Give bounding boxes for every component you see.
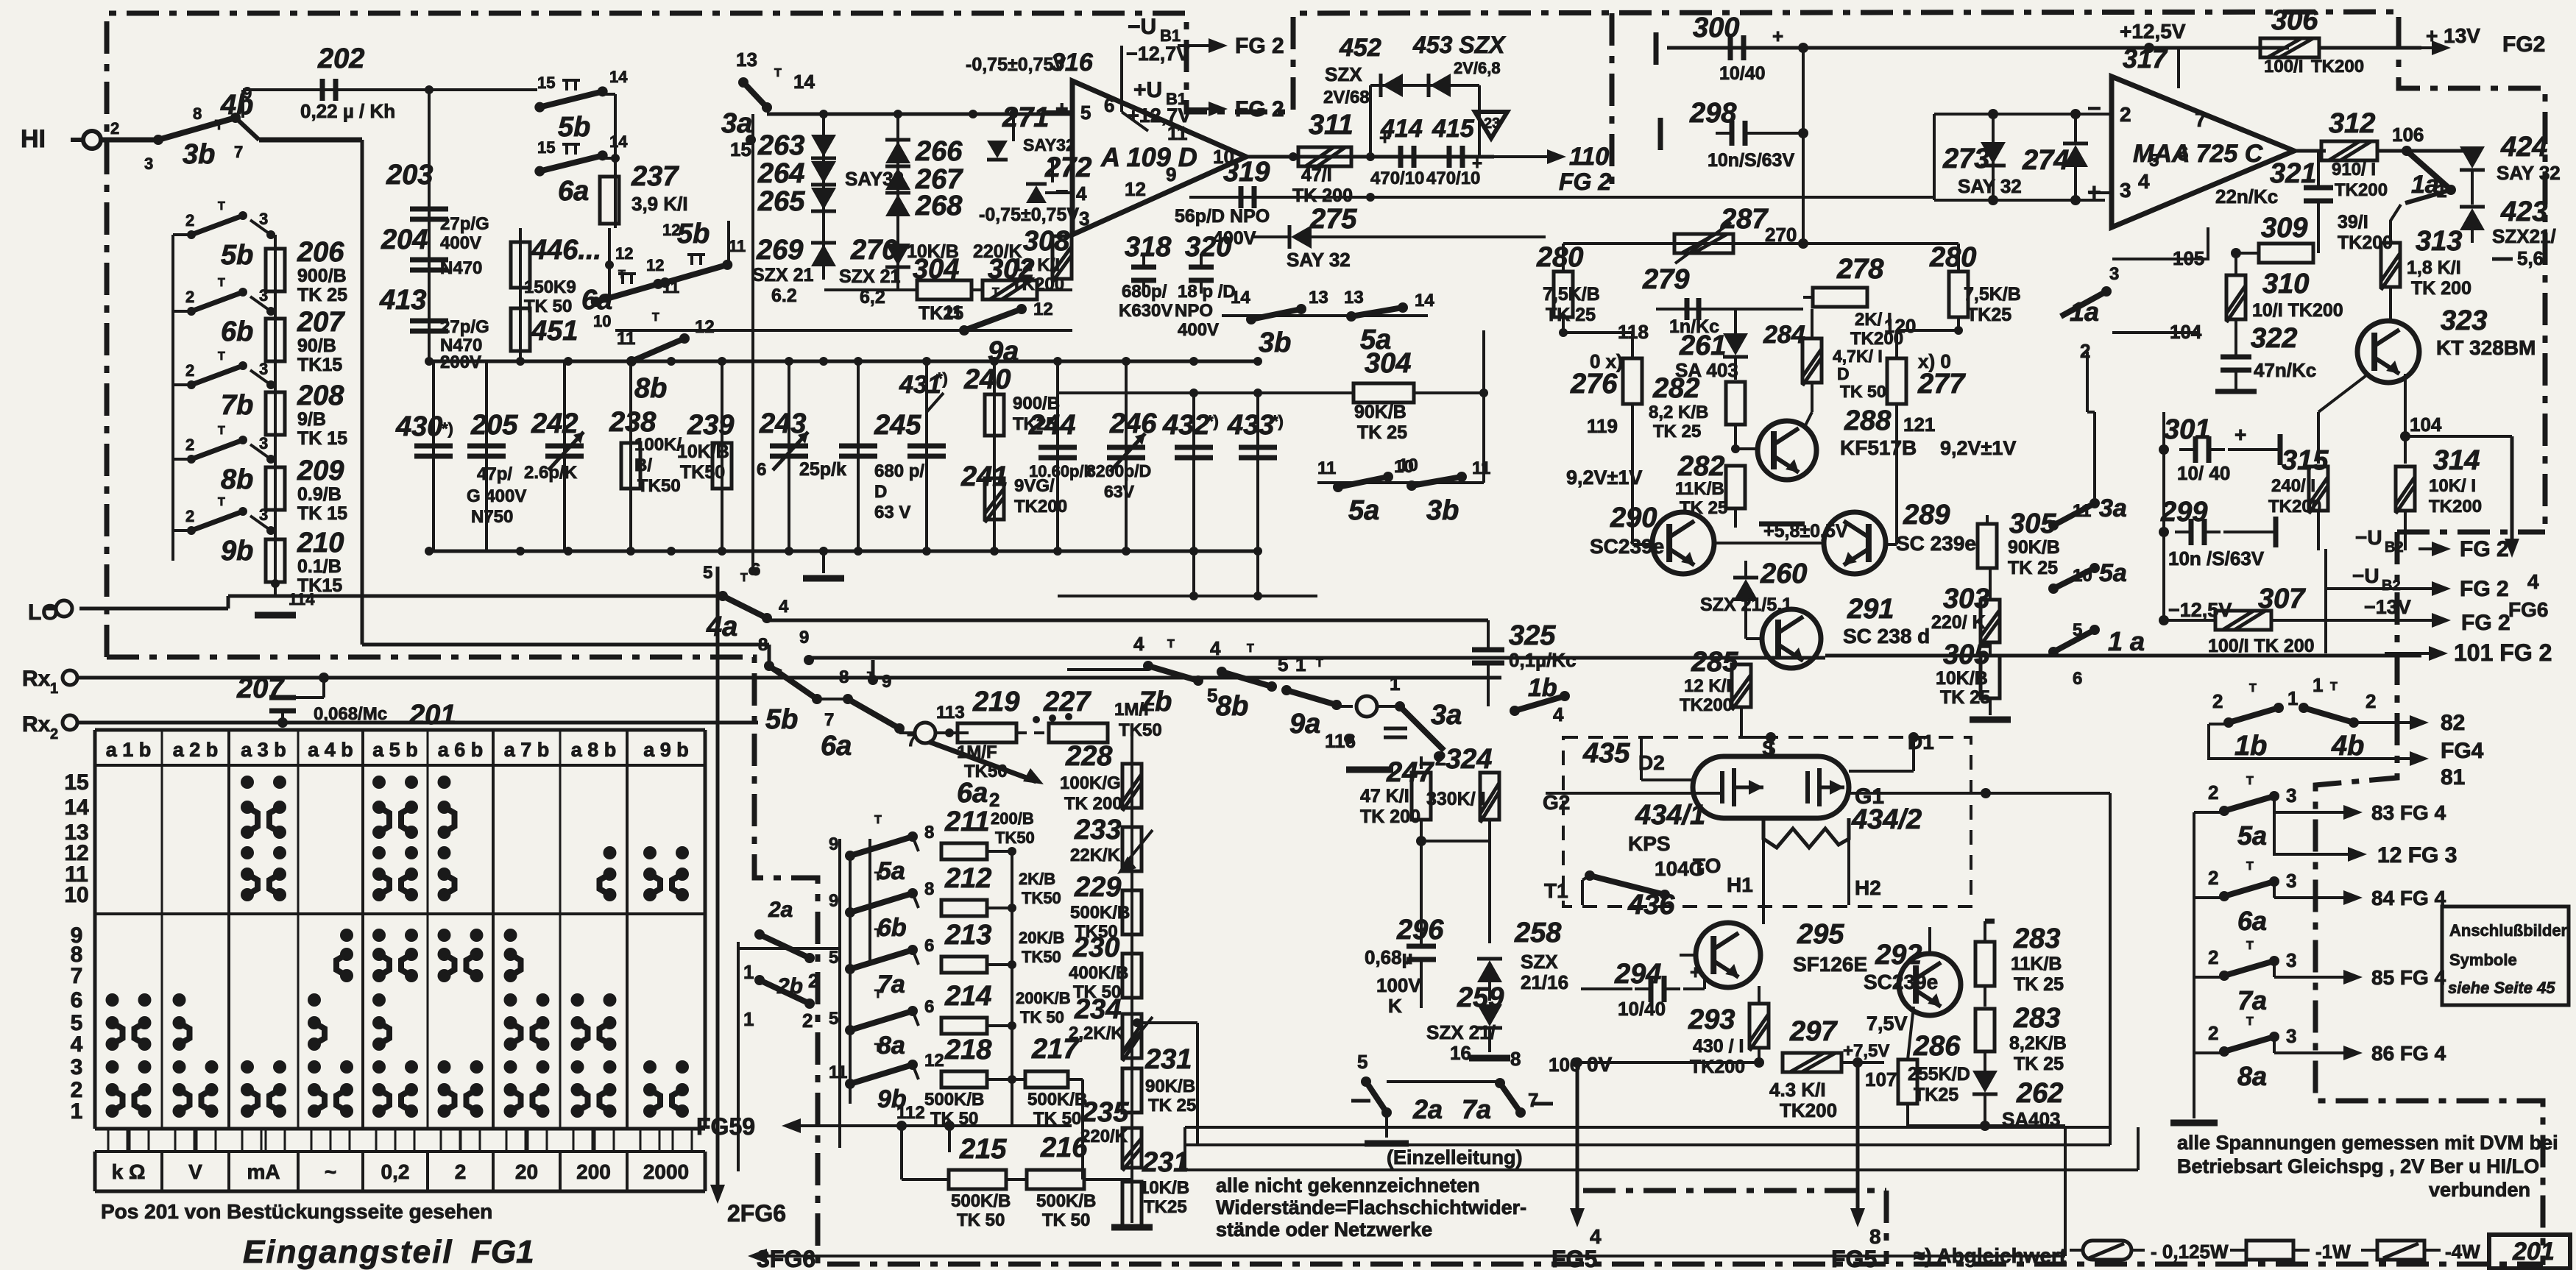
svg-text:5: 5: [829, 948, 838, 968]
svg-text:0,22 µ / Kh: 0,22 µ / Kh: [300, 100, 395, 122]
svg-text:SZX 21: SZX 21: [839, 266, 900, 287]
svg-text:8,2K/B: 8,2K/B: [2009, 1033, 2067, 1054]
svg-text:T: T: [1316, 657, 1323, 670]
svg-text:247: 247: [1386, 757, 1434, 788]
svg-text:*): *): [442, 419, 453, 438]
svg-text:10/I TK200: 10/I TK200: [2252, 300, 2343, 321]
svg-text:1: 1: [2436, 180, 2446, 202]
svg-text:KPS: KPS: [1628, 832, 1671, 855]
svg-text:−U: −U: [2352, 564, 2379, 587]
svg-text:FG2: FG2: [2502, 32, 2545, 57]
svg-text:TK200: TK200: [1850, 329, 1903, 349]
svg-text:−U: −U: [2355, 526, 2382, 549]
svg-text:14: 14: [609, 132, 628, 151]
svg-text:TK 25: TK 25: [1940, 687, 1990, 708]
svg-text:201: 201: [2512, 1238, 2555, 1266]
svg-text:14: 14: [1231, 288, 1250, 308]
svg-text:2: 2: [185, 211, 194, 230]
svg-text:292: 292: [1875, 940, 1922, 971]
svg-text:4: 4: [2138, 170, 2150, 193]
svg-text:T: T: [2246, 860, 2254, 873]
svg-text:260: 260: [1760, 558, 1807, 589]
svg-text:433: 433: [1227, 410, 1274, 441]
svg-text:8: 8: [1510, 1048, 1521, 1070]
svg-text:6: 6: [924, 936, 934, 956]
svg-text:213: 213: [944, 920, 991, 951]
svg-text:0,2: 0,2: [381, 1160, 410, 1183]
svg-text:291: 291: [1847, 594, 1894, 625]
svg-text:mA: mA: [247, 1160, 280, 1183]
svg-text:FG 2: FG 2: [1235, 97, 1284, 121]
svg-text:T: T: [874, 1042, 882, 1054]
svg-text:LO: LO: [28, 600, 59, 625]
svg-text:6: 6: [924, 997, 934, 1017]
svg-text:−13V: −13V: [2364, 596, 2411, 618]
svg-text:304: 304: [1365, 348, 1411, 379]
svg-text:309: 309: [2261, 213, 2307, 244]
svg-text:SF126E: SF126E: [1793, 953, 1867, 976]
svg-text:10K/B: 10K/B: [1936, 668, 1988, 689]
svg-text:12 K/I: 12 K/I: [1684, 676, 1731, 696]
svg-text:243: 243: [759, 408, 806, 439]
svg-text:B2: B2: [2382, 578, 2401, 594]
svg-text:8b: 8b: [221, 464, 253, 495]
svg-text:47p/: 47p/: [477, 464, 512, 484]
svg-text:90K/B: 90K/B: [1354, 402, 1406, 422]
svg-text:5b: 5b: [765, 704, 798, 735]
svg-text:4a: 4a: [706, 611, 737, 642]
svg-text:8: 8: [758, 635, 768, 655]
svg-text:307: 307: [2258, 583, 2306, 614]
svg-text:5: 5: [1357, 1051, 1367, 1073]
svg-text:TO: TO: [1693, 854, 1721, 877]
svg-text:TK 50: TK 50: [1020, 1008, 1064, 1026]
svg-text:452: 452: [1339, 34, 1381, 62]
svg-text:288: 288: [1844, 405, 1892, 436]
svg-text:T: T: [1247, 642, 1254, 655]
svg-text:295: 295: [1797, 919, 1844, 950]
svg-text:TK200: TK200: [1680, 695, 1733, 715]
svg-text:1: 1: [50, 681, 58, 697]
svg-text:+ 13V: + 13V: [2426, 24, 2480, 47]
svg-text:8200p/D: 8200p/D: [1086, 461, 1151, 480]
svg-text:2.6p/K: 2.6p/K: [524, 463, 578, 483]
svg-text:2K/B: 2K/B: [1019, 870, 1055, 888]
svg-text:235: 235: [1081, 1097, 1129, 1128]
svg-text:263: 263: [757, 130, 804, 161]
svg-text:TK200: TK200: [2311, 57, 2364, 77]
svg-text:209: 209: [297, 455, 344, 486]
svg-text:11: 11: [1472, 458, 1490, 478]
svg-text:282: 282: [1652, 373, 1699, 404]
svg-text:220/ K: 220/ K: [1931, 612, 1986, 633]
svg-text:7: 7: [71, 964, 83, 988]
svg-text:324: 324: [1446, 744, 1492, 775]
svg-text:2: 2: [110, 119, 119, 138]
svg-text:TK 15: TK 15: [297, 428, 347, 449]
svg-text:K630V: K630V: [1119, 301, 1172, 321]
svg-text:5: 5: [1278, 653, 1288, 675]
svg-text:296: 296: [1396, 915, 1444, 946]
svg-text:a 7 b: a 7 b: [504, 739, 550, 761]
svg-text:TK200: TK200: [1011, 274, 1064, 294]
svg-text:1: 1: [2287, 687, 2298, 709]
svg-text:9,2V±1V: 9,2V±1V: [1566, 467, 1642, 489]
svg-text:2: 2: [185, 436, 194, 454]
svg-text:500K/B: 500K/B: [951, 1191, 1011, 1211]
svg-text:5a: 5a: [2099, 559, 2127, 587]
svg-text:300: 300: [1693, 13, 1739, 43]
svg-text:TK25: TK25: [1914, 1085, 1958, 1105]
svg-text:3: 3: [2286, 870, 2296, 892]
svg-text:279: 279: [1642, 264, 1689, 295]
svg-text:TK25: TK25: [1967, 305, 2011, 325]
svg-text:20: 20: [515, 1160, 538, 1183]
svg-text:12: 12: [1033, 299, 1053, 319]
svg-text:500K/B: 500K/B: [1036, 1191, 1096, 1211]
svg-text:3b: 3b: [183, 139, 215, 170]
svg-text:268: 268: [915, 191, 963, 221]
svg-text:150K9: 150K9: [524, 277, 576, 297]
svg-text:6a: 6a: [2237, 906, 2267, 936]
svg-text:400K/B: 400K/B: [1069, 963, 1128, 983]
svg-text:284: 284: [1763, 321, 1805, 349]
svg-text:D: D: [1837, 364, 1850, 383]
svg-text:314: 314: [2433, 445, 2480, 476]
svg-text:446...: 446...: [531, 235, 601, 266]
svg-text:T1: T1: [1544, 879, 1568, 902]
svg-text:14: 14: [609, 68, 628, 86]
svg-text:1: 1: [2313, 674, 2323, 696]
svg-text:500K/B: 500K/B: [1027, 1090, 1087, 1110]
svg-text:KF517B: KF517B: [1840, 436, 1917, 459]
svg-text:47 K/I: 47 K/I: [1360, 786, 1409, 806]
svg-text:434/2: 434/2: [1851, 804, 1922, 835]
svg-text:7b: 7b: [221, 390, 253, 421]
svg-text:12 K/I: 12 K/I: [1013, 255, 1060, 275]
svg-text:90/B: 90/B: [297, 336, 336, 356]
svg-text:271: 271: [1002, 102, 1049, 133]
svg-text:1: 1: [71, 1099, 83, 1124]
svg-text:3: 3: [144, 155, 153, 173]
svg-text:3a: 3a: [1431, 700, 1462, 731]
svg-text:FG59: FG59: [696, 1113, 755, 1140]
svg-text:2: 2: [808, 970, 818, 992]
svg-text:434/1: 434/1: [1635, 800, 1705, 831]
svg-text:TK50: TK50: [680, 462, 725, 483]
svg-text:431: 431: [899, 371, 941, 399]
svg-text:2K/ I: 2K/ I: [1855, 310, 1892, 330]
svg-text:100/I: 100/I: [2264, 57, 2303, 77]
svg-text:85 FG 4: 85 FG 4: [2371, 966, 2446, 989]
svg-text:10/40: 10/40: [1719, 63, 1766, 84]
svg-text:313: 313: [2416, 226, 2462, 257]
svg-text:3FG6: 3FG6: [757, 1246, 815, 1270]
svg-text:K: K: [1388, 995, 1402, 1017]
svg-text:2: 2: [2208, 1022, 2218, 1044]
svg-text:228: 228: [1065, 741, 1113, 772]
svg-text:110: 110: [1569, 143, 1609, 171]
svg-text:0,1µ/Kc: 0,1µ/Kc: [1509, 649, 1577, 671]
svg-text:TK 50: TK 50: [957, 1210, 1005, 1230]
svg-text:2V/68: 2V/68: [1323, 88, 1370, 107]
svg-text:100V: 100V: [1376, 974, 1421, 996]
svg-text:246: 246: [1109, 408, 1157, 439]
svg-text:6: 6: [757, 460, 766, 480]
svg-text:-1W: -1W: [2315, 1241, 2351, 1263]
svg-text:6: 6: [71, 988, 83, 1012]
svg-text:262: 262: [2016, 1078, 2063, 1109]
svg-text:1: 1: [743, 1008, 754, 1030]
svg-text:220/K: 220/K: [1080, 1127, 1128, 1146]
svg-text:321: 321: [2270, 158, 2316, 189]
svg-text:- 0,125W: - 0,125W: [2151, 1241, 2229, 1263]
svg-text:500K/B: 500K/B: [924, 1090, 984, 1110]
svg-text:261: 261: [1679, 330, 1726, 361]
svg-text:264: 264: [757, 158, 804, 189]
svg-text:910/ I: 910/ I: [2332, 160, 2376, 180]
svg-text:SAY 32: SAY 32: [2497, 162, 2561, 184]
svg-text:3: 3: [2120, 179, 2131, 202]
svg-text:680p/: 680p/: [1122, 282, 1167, 302]
svg-text:5b: 5b: [677, 219, 710, 249]
svg-text:TK 25: TK 25: [1357, 422, 1407, 443]
svg-text:63 V: 63 V: [874, 503, 910, 522]
svg-text:FG 2: FG 2: [1559, 168, 1611, 195]
svg-text:2: 2: [185, 288, 194, 306]
svg-text:6a: 6a: [957, 778, 988, 809]
svg-text:86 FG 4: 86 FG 4: [2371, 1042, 2446, 1065]
svg-text:205: 205: [470, 410, 518, 441]
svg-text:106: 106: [2392, 124, 2424, 146]
svg-text:233: 233: [1074, 815, 1121, 845]
svg-text:242: 242: [531, 408, 578, 439]
svg-text:8a: 8a: [2237, 1061, 2267, 1091]
svg-text:423: 423: [2500, 196, 2547, 227]
svg-text:2: 2: [2208, 781, 2218, 803]
svg-text:63V: 63V: [1104, 482, 1135, 501]
svg-text:2FG6: 2FG6: [727, 1200, 786, 1227]
svg-text:16: 16: [1450, 1042, 1471, 1064]
svg-text:TK 50: TK 50: [1840, 382, 1886, 401]
svg-text:2: 2: [2208, 946, 2218, 968]
svg-text:298: 298: [1689, 98, 1737, 129]
svg-text:SC239e: SC239e: [1590, 535, 1664, 558]
svg-text:~: ~: [325, 1160, 336, 1183]
svg-text:FG 2: FG 2: [1235, 34, 1284, 58]
svg-text:3: 3: [2109, 264, 2119, 284]
svg-text:2,2K/K: 2,2K/K: [1069, 1024, 1124, 1043]
svg-text:12 FG 3: 12 FG 3: [2377, 843, 2457, 868]
svg-text:27p/G: 27p/G: [440, 317, 489, 337]
svg-text:227: 227: [1043, 687, 1091, 717]
svg-text:TK 25: TK 25: [297, 285, 347, 305]
svg-text:T: T: [874, 988, 882, 1001]
svg-text:4: 4: [1590, 1225, 1602, 1248]
svg-text:T: T: [618, 269, 626, 281]
svg-text:293: 293: [1688, 1004, 1735, 1035]
svg-text:241: 241: [960, 461, 1008, 492]
svg-text:TK 200: TK 200: [1064, 794, 1122, 814]
svg-text:T: T: [740, 572, 748, 584]
svg-text:413: 413: [379, 285, 426, 316]
svg-text:10K/B: 10K/B: [677, 441, 729, 462]
svg-text:T: T: [874, 870, 882, 883]
svg-text:10: 10: [64, 883, 88, 907]
svg-text:4: 4: [1210, 637, 1221, 659]
svg-text:276: 276: [1570, 369, 1618, 400]
svg-text:T: T: [874, 814, 882, 826]
svg-text:FG1: FG1: [471, 1234, 534, 1270]
svg-text:T: T: [992, 286, 999, 299]
svg-text:304: 304: [913, 254, 959, 285]
svg-text:311: 311: [1309, 110, 1354, 141]
svg-text:TK 50: TK 50: [1042, 1210, 1090, 1230]
svg-text:9: 9: [829, 891, 838, 911]
svg-text:245: 245: [874, 410, 921, 441]
svg-text:1: 1: [1390, 673, 1400, 695]
svg-text:414: 414: [1380, 115, 1423, 143]
svg-text:4: 4: [71, 1032, 83, 1057]
svg-text:325: 325: [1509, 620, 1556, 651]
svg-text:282: 282: [1677, 451, 1724, 482]
svg-text:SC 238 d: SC 238 d: [1843, 625, 1930, 648]
svg-text:3b: 3b: [1259, 327, 1291, 358]
svg-text:400V: 400V: [440, 233, 481, 253]
svg-text:6b: 6b: [221, 316, 253, 347]
svg-text:12: 12: [1125, 178, 1146, 200]
svg-text:siehe Seite 45: siehe Seite 45: [2448, 979, 2555, 997]
svg-text:289: 289: [1903, 500, 1950, 531]
svg-text:14: 14: [1415, 291, 1434, 311]
svg-text:TK200: TK200: [2335, 180, 2388, 200]
svg-text:+5,8±0,5V: +5,8±0,5V: [1763, 521, 1848, 542]
svg-text:Rx: Rx: [22, 712, 51, 737]
svg-text:11: 11: [729, 237, 746, 255]
svg-text:1a: 1a: [2411, 171, 2439, 199]
svg-text:10K/B: 10K/B: [1139, 1178, 1189, 1198]
svg-text:SAY 32: SAY 32: [1958, 175, 2022, 197]
svg-text:FG5: FG5: [1551, 1246, 1597, 1270]
svg-text:239: 239: [687, 410, 734, 441]
svg-text:470/10: 470/10: [1370, 168, 1424, 188]
svg-text:451: 451: [531, 316, 578, 347]
svg-text:273: 273: [1942, 143, 1989, 174]
svg-text:*): *): [1207, 412, 1219, 430]
svg-text:204: 204: [381, 224, 428, 255]
svg-text:255K/D: 255K/D: [1908, 1064, 1970, 1085]
svg-text:436: 436: [1627, 890, 1675, 920]
svg-text:9: 9: [882, 672, 891, 692]
svg-text:8,2 K/B: 8,2 K/B: [1649, 402, 1708, 422]
svg-text:25p/k: 25p/k: [799, 459, 846, 480]
svg-text:NPO: NPO: [1175, 301, 1213, 321]
svg-text:15: 15: [537, 138, 555, 157]
svg-text:306: 306: [2271, 5, 2318, 36]
svg-text:13: 13: [1309, 288, 1328, 308]
svg-text:N750: N750: [471, 507, 513, 527]
svg-text:207: 207: [297, 307, 345, 338]
svg-text:104: 104: [2410, 414, 2442, 436]
svg-text:a 6 b: a 6 b: [438, 739, 484, 761]
svg-text:10n/S/63V: 10n/S/63V: [1708, 150, 1794, 171]
svg-text:3: 3: [2286, 784, 2296, 806]
svg-text:10/ 40: 10/ 40: [2177, 462, 2230, 484]
svg-text:FG5: FG5: [1831, 1246, 1877, 1270]
svg-text:6.2: 6.2: [771, 285, 797, 306]
svg-text:470/10: 470/10: [1426, 168, 1480, 188]
svg-text:287: 287: [1720, 204, 1769, 235]
svg-text:T: T: [2246, 1015, 2254, 1028]
svg-text:435: 435: [1582, 738, 1630, 769]
svg-text:90K/B: 90K/B: [2008, 537, 2060, 558]
svg-text:203: 203: [386, 160, 433, 191]
svg-text:265: 265: [757, 186, 805, 217]
svg-text:8: 8: [924, 879, 934, 899]
svg-text:7: 7: [824, 710, 834, 730]
svg-text:TK 25: TK 25: [1148, 1096, 1196, 1115]
svg-text:322: 322: [2251, 323, 2297, 354]
svg-text:3: 3: [259, 434, 268, 453]
svg-text:119: 119: [1587, 415, 1618, 437]
svg-text:TK50: TK50: [1119, 720, 1162, 740]
svg-text:229: 229: [1074, 872, 1121, 903]
svg-text:2a: 2a: [1412, 1094, 1443, 1124]
svg-text:283: 283: [2013, 1003, 2060, 1034]
svg-text:202: 202: [317, 43, 364, 74]
svg-text:27p/G: 27p/G: [440, 214, 489, 234]
svg-text:240: 240: [963, 364, 1011, 395]
svg-text:266: 266: [915, 136, 963, 167]
svg-text:TK 25: TK 25: [1653, 422, 1701, 441]
svg-text:6: 6: [2073, 669, 2082, 689]
svg-text:2: 2: [455, 1160, 467, 1183]
svg-text:114: 114: [289, 590, 315, 609]
svg-text:H2: H2: [1855, 876, 1881, 899]
svg-text:113: 113: [936, 703, 965, 723]
svg-text:200: 200: [576, 1160, 611, 1183]
svg-text:430 / I: 430 / I: [1693, 1036, 1744, 1057]
svg-text:TK 25: TK 25: [2014, 974, 2064, 995]
svg-text:277: 277: [1917, 369, 1966, 400]
svg-text:11K/B: 11K/B: [2011, 954, 2062, 974]
svg-text:320: 320: [1185, 232, 1231, 263]
svg-text:5,6: 5,6: [2517, 247, 2544, 269]
svg-text:5b: 5b: [221, 240, 253, 271]
svg-text:TK 25: TK 25: [1546, 305, 1596, 325]
svg-text:7a: 7a: [2237, 985, 2267, 1015]
svg-text:1,8 K/I: 1,8 K/I: [2407, 258, 2461, 278]
svg-text:4b: 4b: [2331, 731, 2364, 762]
svg-text:283: 283: [2013, 923, 2060, 954]
svg-text:T: T: [218, 350, 225, 363]
svg-text:4: 4: [1076, 182, 1087, 205]
svg-text:270: 270: [1765, 224, 1797, 246]
svg-text:T: T: [874, 927, 882, 940]
svg-text:424: 424: [2500, 132, 2547, 163]
svg-text:11K/B: 11K/B: [1675, 479, 1724, 499]
svg-text:13: 13: [736, 49, 757, 71]
svg-text:430: 430: [395, 411, 442, 442]
svg-text:5: 5: [703, 563, 712, 583]
svg-text:208: 208: [297, 380, 344, 411]
svg-text:8: 8: [193, 104, 202, 123]
svg-text:20K/B: 20K/B: [1019, 929, 1064, 947]
svg-text:TK 200: TK 200: [1360, 806, 1420, 827]
svg-text:−U: −U: [1128, 15, 1156, 39]
svg-text:10: 10: [1394, 457, 1414, 477]
svg-text:2: 2: [2080, 340, 2090, 362]
